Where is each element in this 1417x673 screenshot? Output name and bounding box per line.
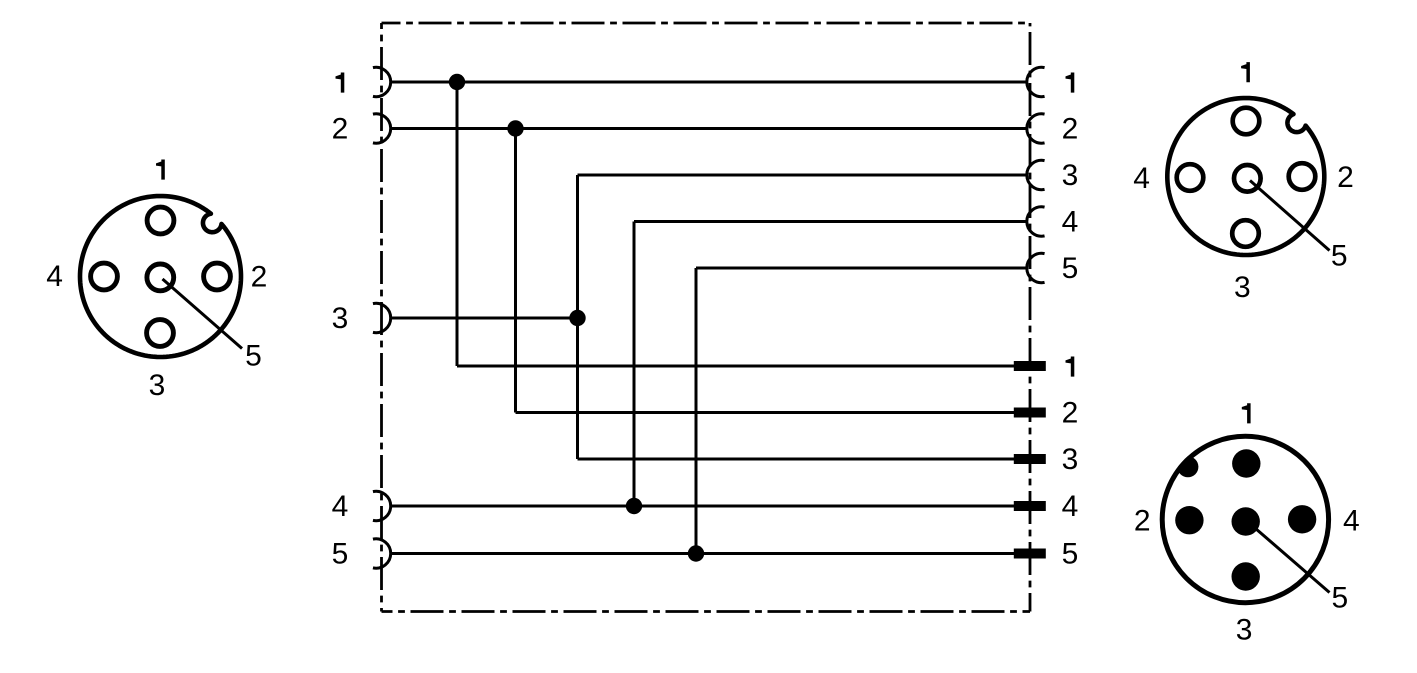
svg-text:3: 3 [1062,159,1079,192]
svg-text:5: 5 [1332,582,1349,615]
svg-text:3: 3 [149,369,166,402]
svg-text:5: 5 [245,340,262,373]
svg-text:2: 2 [332,113,349,146]
svg-text:2: 2 [1337,161,1354,194]
svg-text:5: 5 [332,538,349,571]
svg-text:4: 4 [1062,206,1079,239]
svg-text:2: 2 [1062,113,1079,146]
svg-text:5: 5 [1331,239,1348,272]
svg-text:5: 5 [1062,252,1079,285]
svg-text:4: 4 [1133,162,1150,195]
svg-text:2: 2 [1134,504,1151,537]
svg-text:2: 2 [251,261,268,294]
svg-text:4: 4 [46,260,63,293]
svg-text:4: 4 [1343,504,1360,537]
svg-text:2: 2 [1062,397,1079,430]
svg-text:4: 4 [1062,490,1079,523]
svg-text:5: 5 [1062,538,1079,571]
svg-text:4: 4 [332,490,349,523]
svg-text:3: 3 [332,302,349,335]
svg-text:3: 3 [1236,614,1253,647]
svg-text:3: 3 [1234,271,1251,304]
svg-text:3: 3 [1062,443,1079,476]
